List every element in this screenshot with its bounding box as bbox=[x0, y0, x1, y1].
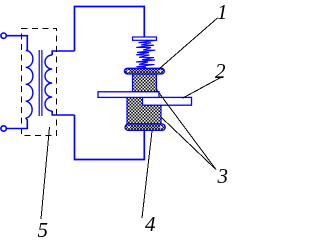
label 4 bbox=[145, 214, 156, 235]
leader line 3b (to coil lower half) bbox=[162, 118, 217, 170]
transformer primary winding (left, 4 arcs bulging right) bbox=[26, 51, 33, 119]
transformer T1 dashed box bbox=[22, 29, 57, 136]
label 2 bbox=[215, 61, 226, 82]
label 1 bbox=[217, 2, 228, 23]
wire from primary winding to bottom terminal bbox=[6, 118, 27, 129]
terminal circle (bottom input) bbox=[1, 126, 6, 131]
label 5 bbox=[38, 220, 49, 241]
armature bar upper-left bbox=[98, 92, 159, 98]
wire from enclosure to transformer secondary (top) bbox=[52, 51, 74, 55]
label 3 bbox=[218, 166, 229, 187]
coil upper half (hatched block) bbox=[133, 74, 157, 92]
bottom bobbin flange (hatched capsule) bbox=[125, 124, 165, 130]
leader line to label 4 bbox=[142, 131, 152, 218]
leader line to label 2 bbox=[183, 77, 223, 99]
wire from transformer secondary to enclosure (bottom) bbox=[52, 111, 74, 115]
spring anchor bar bbox=[133, 37, 157, 40]
leader line 3a (to coil upper half) bbox=[157, 90, 217, 170]
top bobbin flange (hatched capsule) bbox=[124, 68, 164, 74]
coil lower half (hatched block) bbox=[127, 97, 161, 123]
terminal circle (top input) bbox=[1, 33, 6, 38]
transformer secondary winding (right, 4 arcs bulging left) bbox=[45, 55, 52, 111]
transformer core (two vertical lines) bbox=[38, 50, 40, 116]
leader line to label 5 bbox=[41, 127, 50, 219]
leader line to label 1 bbox=[159, 18, 218, 69]
enclosure big rectangle (blue outline, broken left edge for transformer, broken right edge for magnet) bbox=[75, 7, 145, 160]
spring (zigzag coil) bbox=[136, 40, 155, 68]
armature bar lower-right (item 2) bbox=[143, 97, 192, 105]
wire from top terminal to primary winding bbox=[6, 36, 27, 51]
